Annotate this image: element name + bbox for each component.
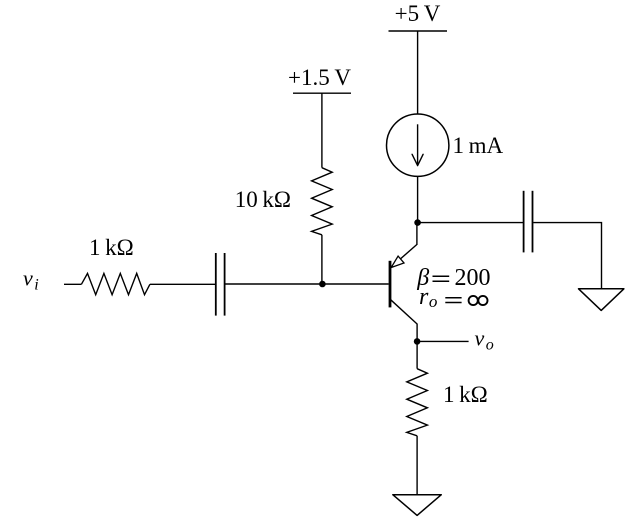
capacitor C2 left plate [523,191,525,253]
capacitor C1 right plate [224,253,226,316]
ground right [579,289,624,311]
transistor Q1 emitter diagonal [390,245,417,268]
svg-text:1 kΩ: 1 kΩ [443,382,488,407]
transistor Q1 base bar [389,261,392,308]
wire node E to vo [417,340,469,342]
resistor R1 1 kOhm [81,273,149,294]
capacitor C2 right plate [532,191,534,253]
transistor Q1 collector diagonal [390,299,417,324]
svg-text:200: 200 [455,265,491,291]
wire R1 to capacitor C1 [150,283,215,285]
wire collector to node E [416,324,418,342]
wire node C to capacitor C2 [418,222,523,224]
capacitor C1 left plate [215,253,217,316]
transistor Q1 emitter arrow (PNP) [391,256,404,267]
current source I1 arrow [417,124,419,164]
wire I1 to collector node [417,176,419,222]
resistor R2 10 kOhm [312,168,333,235]
current source I1 circle [387,114,449,176]
wire C1 to base node [225,283,388,285]
node C junction dot [414,219,421,226]
resistor R3 1 kOhm [407,369,428,436]
node VBB supply bar [293,92,351,94]
node B junction dot [319,281,326,288]
node E junction dot [414,338,421,345]
wire C2 to right ground [533,223,601,289]
wire R3 to ground [416,436,418,495]
wire VCC to current source I1 [417,31,419,114]
node VCC supply bar [389,30,448,32]
svg-text:+5 V: +5 V [395,1,441,26]
wire node E to resistor R3 [416,341,418,368]
svg-text:1 mA: 1 mA [453,133,504,158]
svg-text:+1.5 V: +1.5 V [288,65,351,90]
wire vi to resistor R1 [64,283,81,285]
wire R2 to base node [321,235,323,284]
svg-text:10 kΩ: 10 kΩ [235,187,291,212]
ground bottom [393,495,442,516]
wire VBB to resistor R2 [321,93,323,168]
wire emitter to node C [416,223,418,245]
svg-text:1 kΩ: 1 kΩ [89,235,134,260]
